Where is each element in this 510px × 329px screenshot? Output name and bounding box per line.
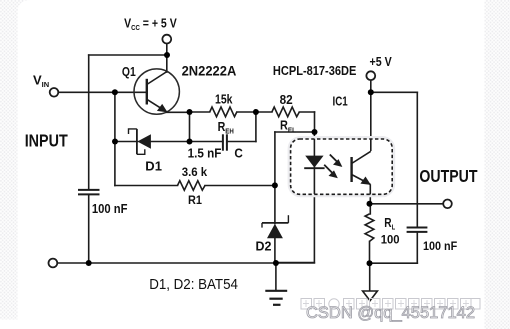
svg-text:3.6 k: 3.6 k (182, 166, 208, 179)
svg-text:R1: R1 (188, 195, 203, 208)
svg-text:2N2222A: 2N2222A (182, 63, 237, 78)
svg-text:OUTPUT: OUTPUT (419, 166, 477, 186)
svg-text:D1: D1 (145, 158, 162, 173)
svg-text:CSDN @qq_45517142: CSDN @qq_45517142 (306, 304, 475, 322)
svg-text:INPUT: INPUT (25, 131, 68, 151)
svg-text:D2: D2 (256, 238, 272, 253)
svg-text:IC1: IC1 (333, 95, 349, 109)
svg-text:D1, D2: BAT54: D1, D2: BAT54 (149, 276, 238, 293)
svg-text:100 nF: 100 nF (423, 241, 457, 254)
svg-text:82: 82 (280, 93, 293, 107)
svg-text:1.5 nF: 1.5 nF (188, 146, 222, 161)
svg-text:HCPL-817-36DE: HCPL-817-36DE (273, 63, 356, 78)
svg-text:C: C (234, 146, 243, 161)
svg-text:100: 100 (381, 233, 400, 246)
svg-text:15k: 15k (215, 94, 233, 107)
svg-text:Q1: Q1 (122, 65, 136, 79)
svg-text:+5 V: +5 V (370, 54, 392, 69)
svg-text:100 nF: 100 nF (92, 201, 128, 216)
